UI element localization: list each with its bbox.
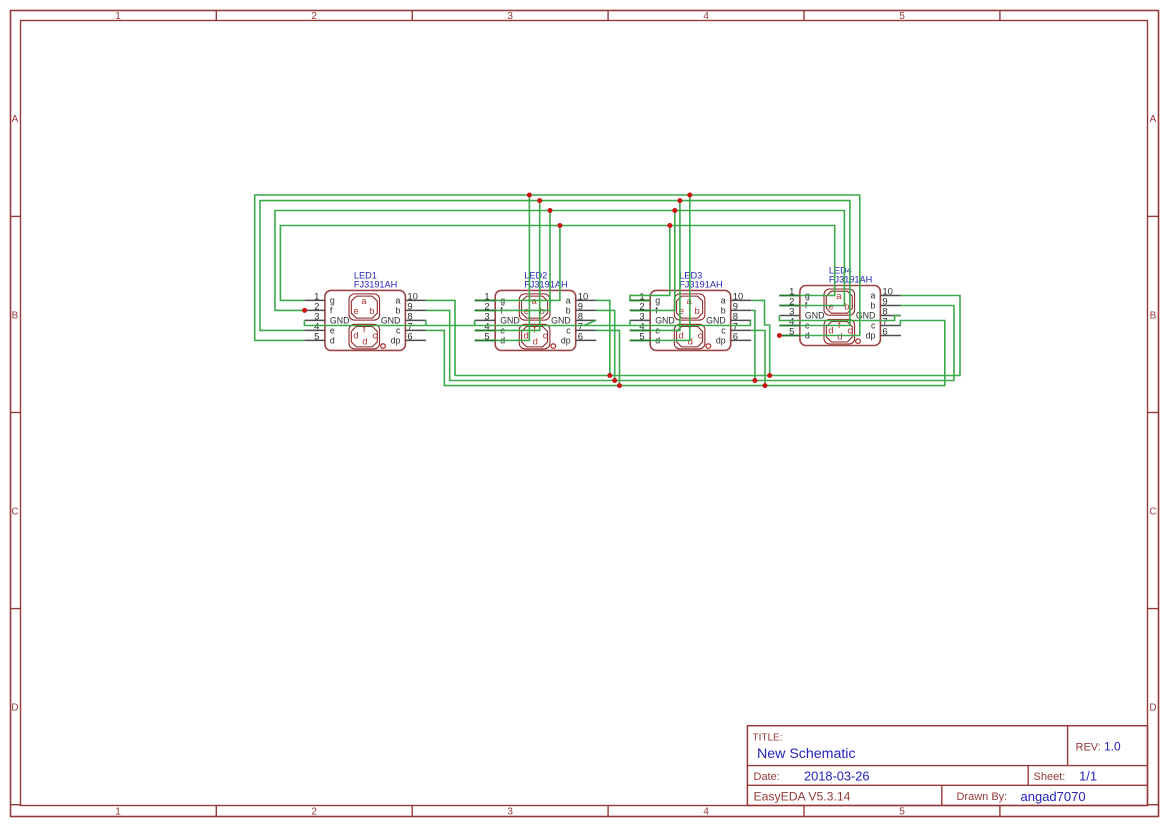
junction top line2 / LED3 pin4 [677, 198, 682, 203]
LED4 decimal point [856, 339, 861, 344]
LED2 pin 8 (GND) [576, 319, 597, 321]
LED3 pin 7 (c) [731, 329, 752, 331]
seven-segment display LED1 FJ3191AH body [325, 290, 406, 350]
svg-text:1/1: 1/1 [1079, 769, 1097, 784]
svg-text:angad7070: angad7070 [1021, 789, 1086, 804]
LED2 pin 4 (e) [475, 329, 496, 331]
wire LED3 pin7 down to bottom bus line 3 [751, 330, 765, 385]
junction at LED1 pin2 [302, 308, 307, 313]
wire overlap on LED2 pin1 [475, 299, 496, 301]
svg-text:B: B [1150, 310, 1157, 321]
svg-text:a: a [870, 291, 875, 301]
wire LED3 pin5 up to bus line 1 [630, 195, 690, 340]
seven-segment display LED4 FJ3191AH body [800, 286, 881, 346]
LED3 pin 5 (d) [630, 339, 651, 341]
LED1 pin 10 (a) [405, 299, 426, 301]
LED3 decimal point [706, 344, 711, 349]
wire LED2 pin5 up to bus line 1 [475, 195, 530, 340]
bottom ruler tick 1 [215, 806, 217, 817]
svg-text:a: a [532, 296, 538, 307]
LED1 pin 9 (b) [405, 309, 426, 311]
junction bottom line2 / LED2 pin9 [612, 378, 617, 383]
svg-text:dp: dp [716, 336, 726, 346]
svg-text:4: 4 [703, 807, 709, 818]
wire overlap on LED4 pin4 [779, 325, 800, 327]
LED2 pin 6 (dp) [576, 339, 597, 341]
svg-text:a: a [566, 296, 571, 306]
wire overlap on LED3 pin5 [630, 339, 650, 341]
svg-text:3: 3 [507, 807, 513, 818]
wire LED3 pin4 up to bus line 2 [630, 201, 680, 331]
left ruler tick 4 [11, 804, 21, 806]
LED1 pin 1 (g) [304, 299, 325, 301]
LED2 pin 9 (b) [576, 309, 597, 311]
svg-text:d: d [353, 331, 358, 342]
LED4 pin 8 (GND) [880, 315, 901, 317]
title/rev divider [1067, 726, 1069, 766]
wire overlap on LED3 pin1 [630, 299, 650, 301]
junction at LED4 pin5 [777, 333, 782, 338]
top ruler tick 1 [215, 11, 217, 21]
svg-text:g: g [330, 296, 335, 306]
seven-segment display LED3 FJ3191AH body [650, 290, 731, 350]
svg-text:b: b [695, 306, 700, 317]
LED4 pin 2 (f) [779, 305, 800, 307]
LED4 pin 10 (a) [880, 295, 901, 297]
svg-text:6: 6 [407, 332, 412, 343]
wire GND staple LED3 pin3 [629, 320, 631, 325]
wire overlap on LED2 pin4 [475, 329, 496, 331]
svg-text:dp: dp [561, 336, 571, 346]
junction top line3 / LED3 pin2 [672, 208, 677, 213]
wire overlap on LED2 pin5 [475, 339, 496, 341]
wire LED3 pin1 up to bus line 4 [630, 226, 670, 301]
LED2 pin 10 (a) [576, 299, 597, 301]
LED3 pin 9 (b) [731, 309, 752, 311]
svg-text:GND: GND [706, 316, 726, 326]
svg-text:b: b [566, 306, 571, 316]
wire GND rail LED1 pin3 to LED3 pin8 [304, 320, 750, 325]
LED4 pin 3 (GND) [779, 315, 800, 317]
svg-text:3: 3 [507, 11, 513, 22]
svg-text:FJ3191AH: FJ3191AH [354, 279, 397, 289]
wire overlap on LED3 pin4 [630, 329, 650, 331]
svg-text:Sheet:: Sheet: [1034, 771, 1066, 783]
wire LED3 pin9 down to bottom bus line 2 [751, 310, 755, 380]
svg-text:2018-03-26: 2018-03-26 [804, 769, 869, 784]
LED4 pin 9 (b) [880, 305, 901, 307]
LED1 pin 8 (GND) [405, 319, 426, 321]
svg-text:A: A [1150, 114, 1157, 125]
svg-text:GND: GND [381, 316, 401, 326]
svg-text:b: b [395, 306, 400, 316]
right ruler tick 2 [1148, 412, 1159, 414]
wire LED2 pin10 down to bottom bus line 1 [596, 300, 610, 375]
svg-text:a: a [395, 296, 400, 306]
top ruler tick 5 [999, 11, 1001, 21]
date/sheet divider [1027, 766, 1029, 786]
svg-text:TITLE:: TITLE: [753, 733, 783, 744]
svg-text:GND: GND [551, 316, 571, 326]
svg-text:c: c [372, 331, 377, 342]
wire net e: LED1 pin4 - top bus line 2 - LED4 pin4 [260, 201, 850, 331]
wire LED2 pin1 up to bus line 4 [475, 226, 560, 301]
wire net c: LED1 pin7 - bottom bus line 3 - LED4 pin7 [426, 321, 945, 386]
LED3 pin 1 (g) [630, 299, 651, 301]
wire net d: LED1 pin5 - top bus line 1 - LED4 pin5 [255, 195, 860, 340]
seven-segment display LED2 FJ3191AH body [495, 290, 576, 350]
svg-text:5: 5 [314, 332, 319, 343]
wire net a: LED1 pin10 - bottom bus line 1 - LED4 pin10 [426, 296, 960, 376]
junction top line4 / LED2 pin1 [557, 223, 562, 228]
LED3 pin 8 (GND) [731, 319, 752, 321]
top ruler tick 4 [803, 11, 805, 21]
left ruler tick 1 [11, 215, 21, 217]
wire LED2 pin4 up to bus line 2 [475, 201, 540, 331]
svg-text:c: c [698, 331, 703, 342]
svg-text:EasyEDA V5.3.14: EasyEDA V5.3.14 [754, 789, 851, 803]
svg-text:5: 5 [899, 807, 905, 818]
LED3 seven-segment glyph graphic [674, 294, 705, 349]
svg-text:2: 2 [311, 807, 317, 818]
wire LED3 pin10 down to bottom bus line 1 (jog) [751, 300, 769, 375]
svg-text:GND: GND [500, 316, 520, 326]
svg-text:1: 1 [115, 807, 121, 818]
wire GND diagonal LED2 pin8 [584, 320, 596, 325]
junction bottom line3 / LED2 pin7 [617, 383, 622, 388]
junction top line4 / LED3 pin1 [667, 223, 672, 228]
LED1 pin 7 (c) [405, 329, 426, 331]
svg-text:4: 4 [703, 11, 709, 22]
LED3 pin 4 (e) [630, 329, 651, 331]
LED1 pin 6 (dp) [405, 339, 426, 341]
svg-text:b: b [369, 306, 374, 317]
junction top line1 / LED3 pin5 [687, 193, 692, 198]
svg-text:C: C [11, 506, 18, 517]
svg-text:GND: GND [330, 316, 350, 326]
right ruler tick 4 [1148, 804, 1159, 806]
LED2 seven-segment glyph graphic [519, 294, 550, 349]
wire net f: LED1 pin2 - top bus line 3 - LED4 pin2 [275, 211, 844, 311]
top ruler tick 2 [411, 11, 413, 21]
LED1 pin 2 (f) [304, 309, 325, 311]
svg-text:5: 5 [899, 11, 905, 22]
svg-text:1: 1 [115, 11, 121, 22]
LED3 pin 6 (dp) [731, 339, 752, 341]
LED2 pin 5 (d) [475, 339, 496, 341]
LED3 pin 10 (a) [731, 299, 752, 301]
bottom ruler tick 2 [411, 806, 413, 817]
LED2 decimal point [551, 344, 556, 349]
svg-text:GND: GND [856, 311, 876, 321]
LED3 pin 3 (GND) [630, 319, 651, 321]
svg-text:D: D [1149, 702, 1156, 713]
svg-text:D: D [11, 702, 18, 713]
svg-text:e: e [330, 326, 335, 336]
LED4 pin 4 (e) [779, 325, 800, 327]
svg-text:e: e [524, 306, 529, 317]
bottom ruler tick 4 [803, 806, 805, 817]
LED4 seven-segment glyph graphic [824, 289, 855, 344]
LED2 pin 7 (c) [576, 329, 597, 331]
wire net g: LED1 pin1 - top bus line 4 - LED4 pin1 [280, 226, 834, 301]
svg-text:d: d [330, 336, 335, 346]
svg-text:f: f [363, 325, 366, 336]
svg-text:GND: GND [805, 311, 825, 321]
svg-text:6: 6 [733, 332, 738, 343]
svg-text:6: 6 [882, 327, 887, 338]
LED2 pin 1 (g) [475, 299, 496, 301]
left ruler tick 2 [11, 412, 21, 414]
LED2 pin 3 (GND) [475, 319, 496, 321]
svg-text:a: a [836, 291, 842, 302]
wire LED3 pin2 up to bus line 3 [630, 211, 675, 311]
svg-text:Drawn By:: Drawn By: [957, 791, 1008, 803]
title block divider row1/row2 [747, 765, 1147, 767]
svg-text:d: d [533, 336, 538, 347]
junction bottom line2 / LED3 pin9 [752, 378, 757, 383]
wire GND rail LED4 pin3 to pin8 [779, 316, 900, 321]
svg-text:c: c [566, 326, 571, 336]
svg-text:g: g [655, 296, 660, 306]
LED1 seven-segment glyph graphic [349, 294, 380, 349]
left ruler tick 3 [11, 608, 21, 610]
svg-text:REV:: REV: [1076, 742, 1101, 754]
title block outline [747, 726, 1147, 806]
wire net b: LED1 pin9 - bottom bus line 2 - LED4 pin9 [426, 306, 954, 381]
LED1 pin 4 (e) [304, 329, 325, 331]
svg-text:1.0: 1.0 [1104, 740, 1121, 754]
top ruler tick 3 [607, 11, 609, 21]
svg-text:d: d [362, 336, 367, 347]
wire overlap on LED4 pin1 [779, 295, 800, 297]
svg-text:Date:: Date: [754, 771, 780, 783]
LED4 pin 1 (g) [779, 295, 800, 297]
svg-text:a: a [721, 296, 726, 306]
svg-text:B: B [12, 310, 19, 321]
svg-text:a: a [361, 296, 367, 307]
LED1 decimal point [381, 344, 386, 349]
junction top line1 / LED2 pin5 [527, 193, 532, 198]
svg-text:e: e [829, 301, 834, 312]
svg-text:C: C [1149, 506, 1156, 517]
svg-text:A: A [12, 114, 19, 125]
svg-text:c: c [396, 326, 401, 336]
svg-text:e: e [354, 306, 359, 317]
wire LED2 pin9 down to bottom bus line 2 [596, 310, 615, 380]
wire LED2 pin7 down to bottom bus line 3 [596, 330, 620, 385]
wire GND staple LED1 pin8 [425, 320, 427, 325]
version/drawnby divider [941, 785, 943, 805]
LED1 pin 5 (d) [304, 339, 325, 341]
LED4 pin 7 (c) [880, 325, 901, 327]
svg-text:c: c [543, 331, 548, 342]
wire overlap on LED2 pin2 [475, 309, 496, 311]
svg-text:New Schematic: New Schematic [757, 746, 856, 762]
svg-text:c: c [871, 321, 876, 331]
svg-text:dp: dp [866, 331, 876, 341]
svg-text:GND: GND [655, 316, 675, 326]
LED2 pin 2 (f) [475, 309, 496, 311]
bottom ruler tick 5 [999, 806, 1001, 817]
wire overlap on LED3 pin2 [630, 309, 650, 311]
wire overlap on LED4 pin2 [779, 305, 800, 307]
svg-text:FJ3191AH: FJ3191AH [524, 279, 567, 289]
right ruler tick 1 [1148, 215, 1159, 217]
LED4 pin 5 (d) [779, 335, 800, 337]
svg-text:c: c [721, 326, 726, 336]
title block divider row2/row3 [747, 784, 1147, 786]
svg-text:b: b [870, 301, 875, 311]
right ruler tick 3 [1148, 608, 1159, 610]
junction bottom line1 / LED2 pin10 [607, 373, 612, 378]
wire LED2 pin2 up to bus line 3 [475, 211, 550, 311]
LED4 pin 6 (dp) [880, 335, 901, 337]
svg-text:d: d [837, 332, 842, 343]
svg-text:6: 6 [578, 332, 583, 343]
svg-text:2: 2 [311, 11, 317, 22]
junction top line3 / LED2 pin2 [548, 208, 553, 213]
junction bottom line1 / LED3 pin10 [767, 373, 772, 378]
wire overlap on LED4 pin5 [779, 335, 800, 337]
bottom ruler tick 3 [607, 806, 609, 817]
LED1 pin 3 (GND) [304, 319, 325, 321]
LED3 pin 2 (f) [630, 309, 651, 311]
svg-text:b: b [721, 306, 726, 316]
junction top line2 / LED2 pin4 [537, 198, 542, 203]
svg-text:dp: dp [391, 336, 401, 346]
svg-text:FJ3191AH: FJ3191AH [679, 279, 722, 289]
wire GND staple LED2 pin3 [474, 320, 476, 325]
junction bottom line3 / LED3 pin7 [763, 383, 768, 388]
